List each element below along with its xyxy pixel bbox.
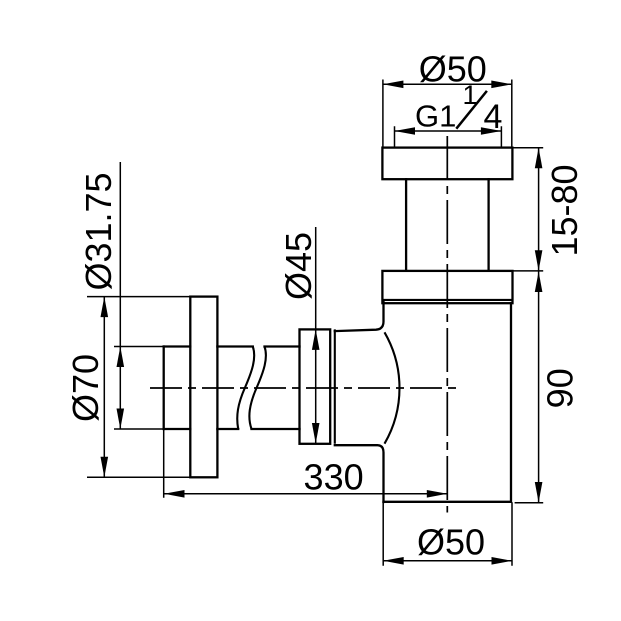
body top flange xyxy=(382,271,512,303)
horizontal centerline of inlet pipe xyxy=(150,387,461,389)
dimension 90: arrowheads xyxy=(535,272,543,293)
vertical centerline of trap body xyxy=(446,136,448,513)
svg-text:4: 4 xyxy=(484,98,503,136)
dimension O50 bottom: line and extensions xyxy=(383,502,512,566)
inlet pipe left edge xyxy=(163,347,165,430)
pipe break curve 2 xyxy=(249,347,266,430)
dimension O45: leader line xyxy=(315,227,317,444)
tailpiece tube left edge xyxy=(405,179,407,271)
dimension O50 top: arrowheads xyxy=(383,81,404,89)
dimension O50 bottom: arrowheads xyxy=(383,557,404,565)
inlet pipe top edge segments xyxy=(164,345,300,347)
dimension O45: arrowheads xyxy=(312,329,320,350)
intersection arc of inlet with body xyxy=(385,332,400,443)
nut joint double line xyxy=(334,329,336,443)
svg-text:Ø70: Ø70 xyxy=(65,354,106,422)
svg-text:15-80: 15-80 xyxy=(544,164,585,256)
trap body left edge upper + socket top edge xyxy=(335,302,384,331)
dimension 15-80: line and extensions xyxy=(512,148,543,271)
dimension O70: arrowheads xyxy=(101,297,109,318)
trap body bottom and right edge xyxy=(384,303,512,502)
body top flange seam line xyxy=(382,299,512,301)
wall escutcheon flange xyxy=(190,297,217,478)
dimension 90: line and extension xyxy=(515,272,544,503)
trap body socket bottom edge + left edge lower xyxy=(335,445,384,502)
dimension G1 1/4: arrowheads xyxy=(395,127,416,135)
dimension O31.75: leader line and extensions xyxy=(114,162,164,429)
pipe break curve 1 xyxy=(237,347,254,430)
dimension O70: line and extensions xyxy=(87,297,190,478)
dimension O31.75: arrowheads xyxy=(117,347,125,368)
svg-text:90: 90 xyxy=(539,368,580,408)
inlet pipe bottom edge segments xyxy=(164,428,300,430)
dimension G1 1/4: line and extensions xyxy=(395,126,502,147)
svg-text:Ø31.75: Ø31.75 xyxy=(78,172,119,290)
dimension O50 top: line and extensions xyxy=(383,80,512,148)
tailpiece tube right edge xyxy=(487,179,489,271)
svg-text:Ø50: Ø50 xyxy=(417,521,485,562)
svg-text:Ø45: Ø45 xyxy=(278,232,319,300)
svg-text:330: 330 xyxy=(304,456,364,497)
dimension 15-80: arrowheads xyxy=(535,148,543,169)
dimension 330: line and left extension xyxy=(164,429,448,498)
top flange (tailpiece upper nut) xyxy=(382,148,512,180)
dimension 330: arrowheads xyxy=(164,490,185,498)
compression nut xyxy=(300,329,331,443)
svg-text:G1: G1 xyxy=(415,99,456,134)
